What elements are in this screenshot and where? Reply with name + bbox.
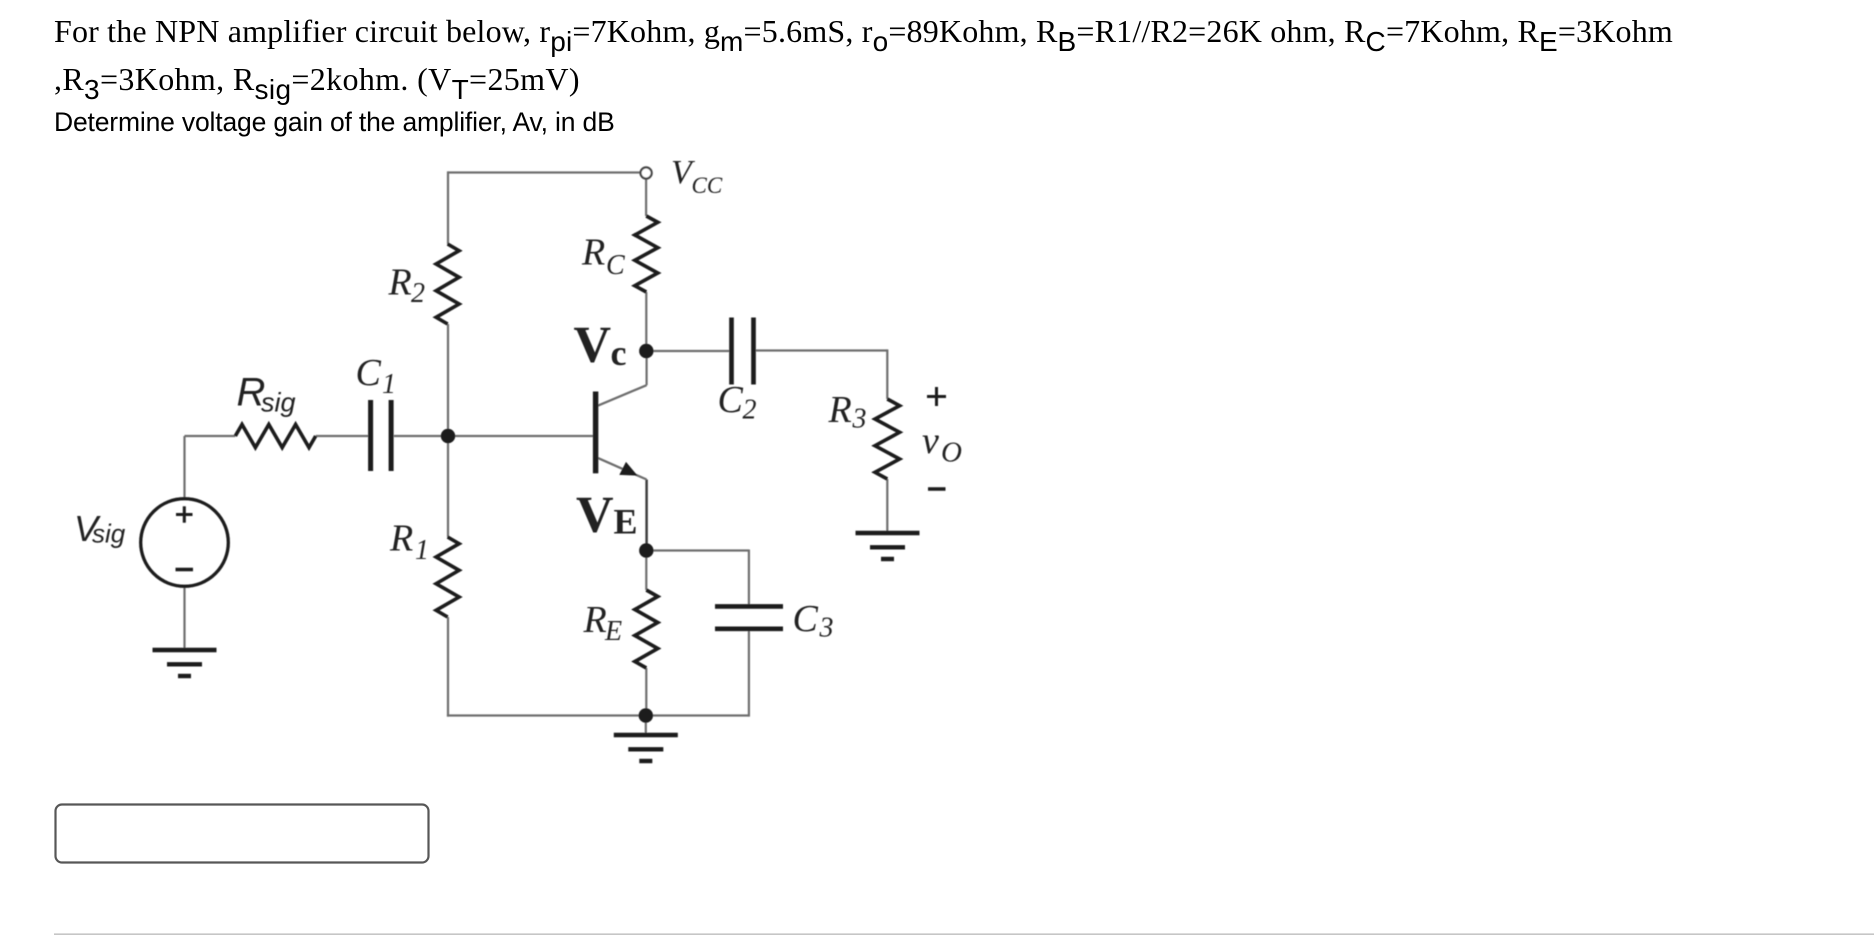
svg-text:O: O bbox=[941, 437, 962, 469]
svg-text:E: E bbox=[604, 616, 622, 647]
svg-text:R: R bbox=[388, 262, 412, 304]
svg-text:2: 2 bbox=[743, 395, 757, 426]
svg-text:R: R bbox=[581, 232, 605, 274]
svg-text:E: E bbox=[614, 502, 638, 542]
svg-text:v: v bbox=[922, 420, 939, 462]
svg-text:R: R bbox=[828, 389, 852, 431]
svg-text:C: C bbox=[606, 250, 625, 281]
svg-text:R: R bbox=[389, 518, 413, 560]
svg-text:sig: sig bbox=[92, 519, 126, 549]
svg-text:2: 2 bbox=[411, 278, 425, 309]
svg-text:V: V bbox=[574, 317, 612, 374]
svg-text:1: 1 bbox=[415, 535, 429, 566]
svg-text:R: R bbox=[583, 599, 607, 641]
svg-text:3: 3 bbox=[819, 613, 834, 644]
svg-text:,R3​=3Kohm, Rsig​=2kohm. (VT​=: ,R3​=3Kohm, Rsig​=2kohm. (VT​=25mV) bbox=[54, 61, 580, 105]
svg-text:C: C bbox=[718, 379, 744, 421]
svg-text:C: C bbox=[793, 598, 819, 640]
svg-text:CC: CC bbox=[692, 173, 723, 198]
svg-text:c: c bbox=[611, 333, 627, 373]
svg-text:1: 1 bbox=[382, 369, 396, 400]
svg-text:V: V bbox=[576, 487, 614, 544]
svg-text:sig: sig bbox=[261, 388, 296, 418]
svg-text:For the NPN amplifier circuit: For the NPN amplifier circuit below, rpi… bbox=[54, 13, 1673, 57]
svg-text:Determine voltage gain of the: Determine voltage gain of the amplifier,… bbox=[54, 107, 615, 137]
svg-text:3: 3 bbox=[852, 404, 867, 435]
svg-text:C: C bbox=[356, 352, 382, 394]
